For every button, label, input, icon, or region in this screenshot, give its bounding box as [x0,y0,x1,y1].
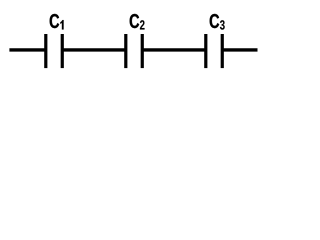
capacitor C2 [126,34,142,68]
label C2 [130,14,145,30]
wire C2 to C3 [142,48,206,51]
label C3 [210,14,225,30]
wire C1 to C2 [62,48,126,51]
capacitor C1 [46,34,62,68]
capacitor C3 [206,34,222,68]
label C1 [50,14,64,30]
wire left lead [9,48,45,51]
wire right lead [222,48,257,51]
